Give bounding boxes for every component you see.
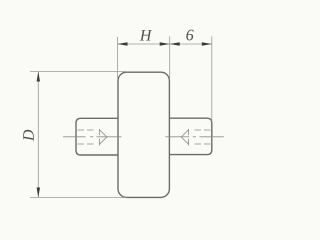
extension line H left (117, 37, 119, 78)
right center-hole hidden line upper (192, 129, 211, 131)
dimension line D (37, 72, 39, 198)
dimension line 6 (170, 43, 212, 45)
right shaft stub outline (169, 118, 211, 154)
left shaft stub outline (76, 118, 118, 155)
arrow 6 left (170, 42, 180, 45)
extension line H right / 6 left (169, 36, 171, 78)
label D (Liberation Serif Italic glyph as path, rotated 90 CCW) (23, 130, 34, 141)
extension line 6 right (211, 36, 213, 122)
arrow D bottom (37, 188, 40, 198)
extension line D top (30, 71, 126, 73)
left center-hole hidden line lower (78, 143, 97, 145)
right center-hole cone (181, 130, 188, 144)
left center-hole hidden line upper (78, 129, 97, 131)
centerline right (dash-dot axis) (165, 136, 224, 138)
right center-hole cone base (188, 129, 190, 146)
label H (Liberation Serif Italic glyph as path) (140, 30, 152, 40)
extension line D bottom (30, 197, 126, 199)
right center-hole hidden line lower (192, 143, 211, 145)
arrow H left (118, 42, 128, 45)
arrow H right (160, 42, 170, 45)
body (central flange outline) (118, 72, 169, 197)
label 6 (Liberation Serif Italic glyph as path) (186, 30, 193, 41)
centerline left (dash-dot axis) (63, 136, 122, 138)
dimension line H (118, 43, 170, 45)
left center-hole cone base (98, 129, 100, 146)
arrow 6 right (202, 42, 212, 45)
left center-hole cone (99, 130, 107, 144)
arrow D top (37, 72, 40, 82)
